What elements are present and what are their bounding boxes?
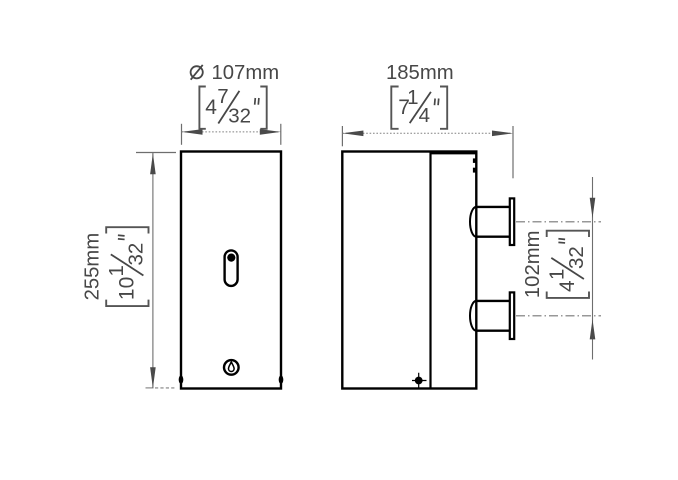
width dim extension line right (front)	[280, 124, 282, 145]
fraction slash (front)	[218, 91, 239, 124]
svg-text:1: 1	[546, 269, 569, 280]
bracket left of 4 7/32	[199, 87, 205, 129]
double prime	[558, 239, 565, 243]
svg-text:1: 1	[407, 86, 418, 109]
spout 2 flange	[510, 292, 514, 339]
svg-text:185mm: 185mm	[386, 62, 454, 84]
drain hole dot	[415, 377, 423, 385]
sensor window (stadium slot)	[225, 250, 238, 286]
bracket right of 4 1/32	[547, 231, 589, 237]
spout 2 centerline	[516, 315, 601, 317]
svg-text:7: 7	[217, 85, 228, 108]
double prime (side)	[435, 99, 439, 106]
height dim line (front)	[152, 153, 154, 388]
depth dim extension line right (side)	[512, 126, 514, 178]
spout spacing dim line (right)	[592, 177, 594, 360]
svg-text:4: 4	[205, 96, 217, 119]
svg-text:255mm: 255mm	[82, 233, 104, 301]
spacing dim arrow up	[590, 319, 596, 339]
rotated 255mm label group	[82, 227, 149, 306]
svg-text:4: 4	[556, 280, 579, 292]
spout 1 intersection arc	[470, 207, 476, 237]
double prime	[118, 235, 125, 239]
depth dim arrow left (side)	[342, 131, 363, 137]
side view thick top cover edge	[431, 151, 478, 154]
side view body outline	[342, 152, 476, 389]
double prime (front)	[255, 98, 259, 105]
spout 1 body	[476, 207, 510, 237]
sensor eye dot	[227, 254, 235, 262]
spout 1 centerline	[516, 221, 601, 223]
fraction slash	[551, 258, 584, 279]
rotated 102mm label group	[522, 230, 589, 298]
svg-text:32: 32	[124, 243, 147, 266]
spacing dim arrow down	[590, 198, 596, 218]
height dim extension line top (front)	[136, 152, 176, 154]
width dim arrow right (front)	[260, 129, 281, 135]
fraction slash (side)	[410, 92, 431, 123]
svg-text:32: 32	[228, 104, 251, 127]
bottom-left mounting bump	[179, 375, 184, 383]
height dim arrow top	[150, 153, 156, 174]
depth dim line (side)	[342, 132, 513, 134]
spout 2 intersection arc	[470, 301, 476, 331]
drop button circle	[224, 360, 239, 375]
drain hole crosshair	[412, 373, 427, 389]
depth dim extension line left (side)	[341, 126, 343, 146]
bracket left of 7 1/4	[391, 87, 398, 129]
front view body outline	[181, 152, 281, 389]
diameter symbol	[191, 65, 203, 80]
bracket right of 4 7/32	[260, 87, 266, 129]
latch mark upper	[473, 158, 476, 163]
spout 1 flange	[510, 198, 514, 245]
svg-text:1: 1	[105, 265, 128, 276]
svg-text:107mm: 107mm	[212, 62, 280, 84]
width dim line (front)	[182, 131, 281, 133]
svg-text:102mm: 102mm	[522, 230, 544, 298]
depth dim arrow right (side)	[492, 131, 513, 137]
svg-text:10: 10	[116, 277, 139, 300]
bracket right of 7 1/4	[440, 87, 447, 129]
bottom-right mounting bump	[279, 375, 284, 383]
drop icon	[229, 362, 235, 372]
height dim extension dashes bottom (front)	[146, 387, 154, 389]
spout 2 body	[476, 301, 510, 331]
svg-text:32: 32	[565, 246, 588, 269]
width dim extension line left (front)	[181, 124, 183, 145]
latch mark lower	[473, 168, 476, 173]
svg-text:4: 4	[419, 104, 430, 127]
bracket left of 10 1/32	[106, 300, 148, 306]
height dim arrow bottom	[150, 367, 156, 388]
side view internal panel line	[429, 152, 431, 389]
fraction slash	[111, 254, 144, 275]
bracket right of 10 1/32	[106, 227, 148, 233]
bracket left of 4 1/32	[547, 292, 589, 298]
width dim arrow left (front)	[182, 129, 203, 135]
